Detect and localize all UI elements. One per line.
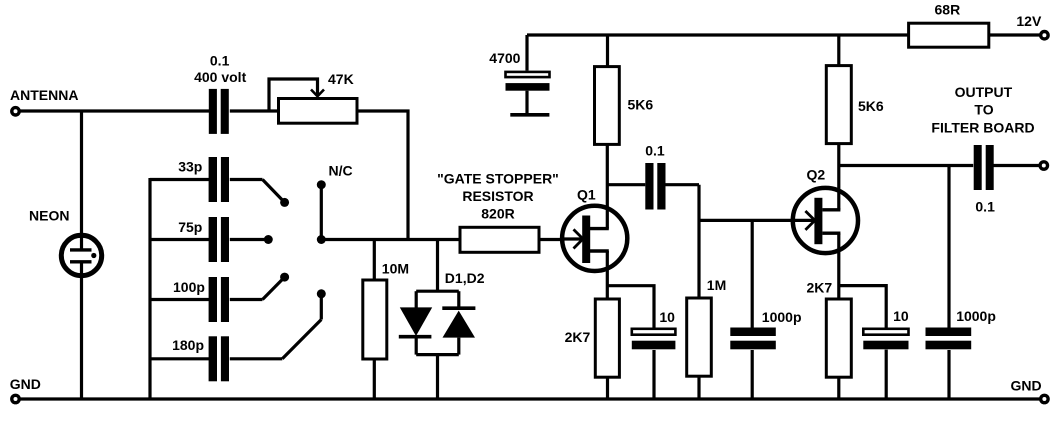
- wire Q2 drain output branch: [839, 164, 973, 167]
- capacitor bank ground bus: [148, 178, 151, 399]
- capacitor 75p: [150, 217, 229, 262]
- svg-text:GND: GND: [1011, 378, 1042, 394]
- resistor 68R: [909, 23, 989, 47]
- wire 1000p Q2 top lead: [947, 166, 950, 329]
- wire 1000p Q2 to ground rail: [947, 350, 950, 399]
- potentiometer 47K wiper link: [269, 79, 324, 111]
- wire Q1 drain up to 5K6: [606, 144, 609, 228]
- svg-text:1M: 1M: [707, 277, 726, 293]
- wire switch pole to 820R: [321, 238, 460, 241]
- svg-text:Q1: Q1: [577, 187, 596, 203]
- wire 5K6 to top rail: [606, 35, 609, 67]
- switch pole wire to N/C: [320, 185, 323, 240]
- capacitor 0.1 output: [974, 145, 994, 190]
- wire 1000p to ground rail: [751, 350, 754, 399]
- transistor Q2: [792, 188, 858, 253]
- resistor 10M: [363, 280, 387, 359]
- wire node down to 1M: [697, 185, 700, 298]
- svg-text:1000p: 1000p: [956, 308, 996, 324]
- switch arm 100p: [230, 273, 289, 300]
- svg-text:0.1: 0.1: [645, 142, 665, 158]
- resistor 820R: [460, 227, 539, 252]
- wire 10uF Q2 to ground rail: [885, 350, 888, 399]
- svg-text:RESISTOR: RESISTOR: [462, 188, 533, 204]
- wire 1000p top lead: [751, 220, 754, 328]
- svg-text:100p: 100p: [173, 279, 205, 295]
- svg-text:68R: 68R: [935, 2, 961, 18]
- wire 68R to 12V: [989, 33, 1040, 36]
- svg-text:ANTENNA: ANTENNA: [10, 87, 78, 103]
- wire 10M top lead: [373, 240, 376, 281]
- wire neon to ground rail: [80, 274, 83, 399]
- svg-text:Q2: Q2: [807, 167, 826, 183]
- svg-text:5K6: 5K6: [628, 97, 654, 113]
- wire 10M to ground rail: [373, 359, 376, 399]
- svg-text:OUTPUT: OUTPUT: [955, 84, 1013, 100]
- svg-text:N/C: N/C: [329, 162, 353, 178]
- svg-text:10: 10: [893, 308, 909, 324]
- antenna input terminal: [12, 108, 19, 115]
- switch arm 33p: [230, 180, 289, 207]
- capacitor 1000p (Q2): [926, 328, 972, 350]
- wire Q2 drain up to 5K6: [837, 144, 840, 210]
- resistor 2K7 Q1 source: [595, 299, 619, 377]
- capacitor 180p: [150, 336, 229, 381]
- wire 820R to Q1 gate: [539, 238, 574, 241]
- svg-text:4700: 4700: [489, 50, 520, 66]
- resistor 5K6 Q1 drain: [595, 67, 620, 145]
- wire node to Q2 gate: [699, 219, 805, 222]
- wire 10uF to ground rail: [652, 350, 655, 399]
- resistor 2K7 Q2 source: [826, 299, 851, 377]
- svg-text:10: 10: [659, 309, 675, 325]
- capacitor 1000p (Q1): [730, 328, 776, 350]
- top supply rail: [527, 33, 909, 36]
- wire Q1 source down: [606, 251, 609, 299]
- svg-text:400 volt: 400 volt: [194, 69, 246, 85]
- wire D1,D2 to ground rail: [436, 355, 439, 399]
- svg-text:NEON: NEON: [29, 208, 69, 224]
- svg-text:TO: TO: [974, 102, 993, 118]
- transistor Q1: [561, 206, 627, 271]
- potentiometer 47K body: [279, 99, 358, 124]
- wire Q2 source down: [837, 233, 840, 299]
- diodes D1,D2 back-to-back: [399, 291, 476, 354]
- switch contact N/C: [317, 180, 326, 189]
- svg-text:FILTER BOARD: FILTER BOARD: [931, 119, 1034, 135]
- svg-text:2K7: 2K7: [807, 279, 833, 295]
- svg-text:5K6: 5K6: [858, 98, 884, 114]
- svg-text:820R: 820R: [481, 205, 514, 221]
- wire Q1 drain to C0.1: [608, 183, 646, 186]
- svg-text:2K7: 2K7: [565, 329, 591, 345]
- wire antenna to C 0.1: [20, 109, 210, 112]
- wire Q2 source branch to 10uF: [839, 286, 886, 328]
- wire 2K7 Q2 to ground rail: [837, 377, 840, 399]
- capacitor 100p: [150, 277, 229, 322]
- wire 2K7 to ground rail: [606, 377, 609, 399]
- resistor 1M: [687, 298, 712, 376]
- wire output cap to terminal: [994, 164, 1040, 167]
- svg-text:1000p: 1000p: [762, 309, 802, 325]
- 12V terminal: [1041, 32, 1048, 39]
- svg-text:33p: 33p: [178, 158, 202, 174]
- svg-text:0.1: 0.1: [975, 198, 995, 214]
- capacitor 0.1 coupling: [645, 163, 665, 210]
- svg-text:47K: 47K: [328, 71, 354, 87]
- svg-text:"GATE STOPPER": "GATE STOPPER": [437, 171, 559, 187]
- svg-text:12V: 12V: [1016, 13, 1042, 29]
- switch pole: [317, 235, 326, 244]
- neon bulb: [61, 235, 101, 276]
- switch arm 180p: [230, 289, 326, 359]
- capacitor 0.1 400 volt: [209, 89, 229, 134]
- ground rail: [20, 397, 1040, 400]
- wire D1,D2 top lead: [436, 240, 439, 293]
- switch contact 75p: [230, 235, 273, 244]
- svg-text:GND: GND: [10, 376, 41, 392]
- capacitor 10 electrolytic (Q1): [632, 329, 676, 350]
- wire C0.1 to pot: [230, 109, 279, 112]
- capacitor 10 electrolytic (Q2): [863, 329, 908, 350]
- svg-text:75p: 75p: [178, 219, 202, 235]
- resistor 5K6 Q2 drain: [826, 66, 851, 144]
- output terminal: [1040, 162, 1047, 169]
- wire C0.1 to node: [666, 183, 700, 186]
- svg-text:10M: 10M: [382, 261, 409, 277]
- ground terminal right: [1041, 395, 1048, 402]
- wire 1M to ground rail: [697, 376, 700, 399]
- svg-text:D1,D2: D1,D2: [445, 270, 485, 286]
- wire neon branch down: [80, 111, 83, 236]
- wire 4700 top lead: [525, 35, 528, 71]
- wire pot right to corner down: [357, 111, 408, 240]
- wire Q1 source branch to 10uF: [608, 286, 655, 329]
- wire 5K6 Q2 to top rail: [837, 35, 840, 66]
- capacitor 4700 electrolytic: [506, 72, 550, 115]
- capacitor 33p: [150, 157, 229, 202]
- ground terminal left: [12, 395, 19, 402]
- svg-text:180p: 180p: [172, 337, 204, 353]
- svg-text:0.1: 0.1: [210, 53, 230, 69]
